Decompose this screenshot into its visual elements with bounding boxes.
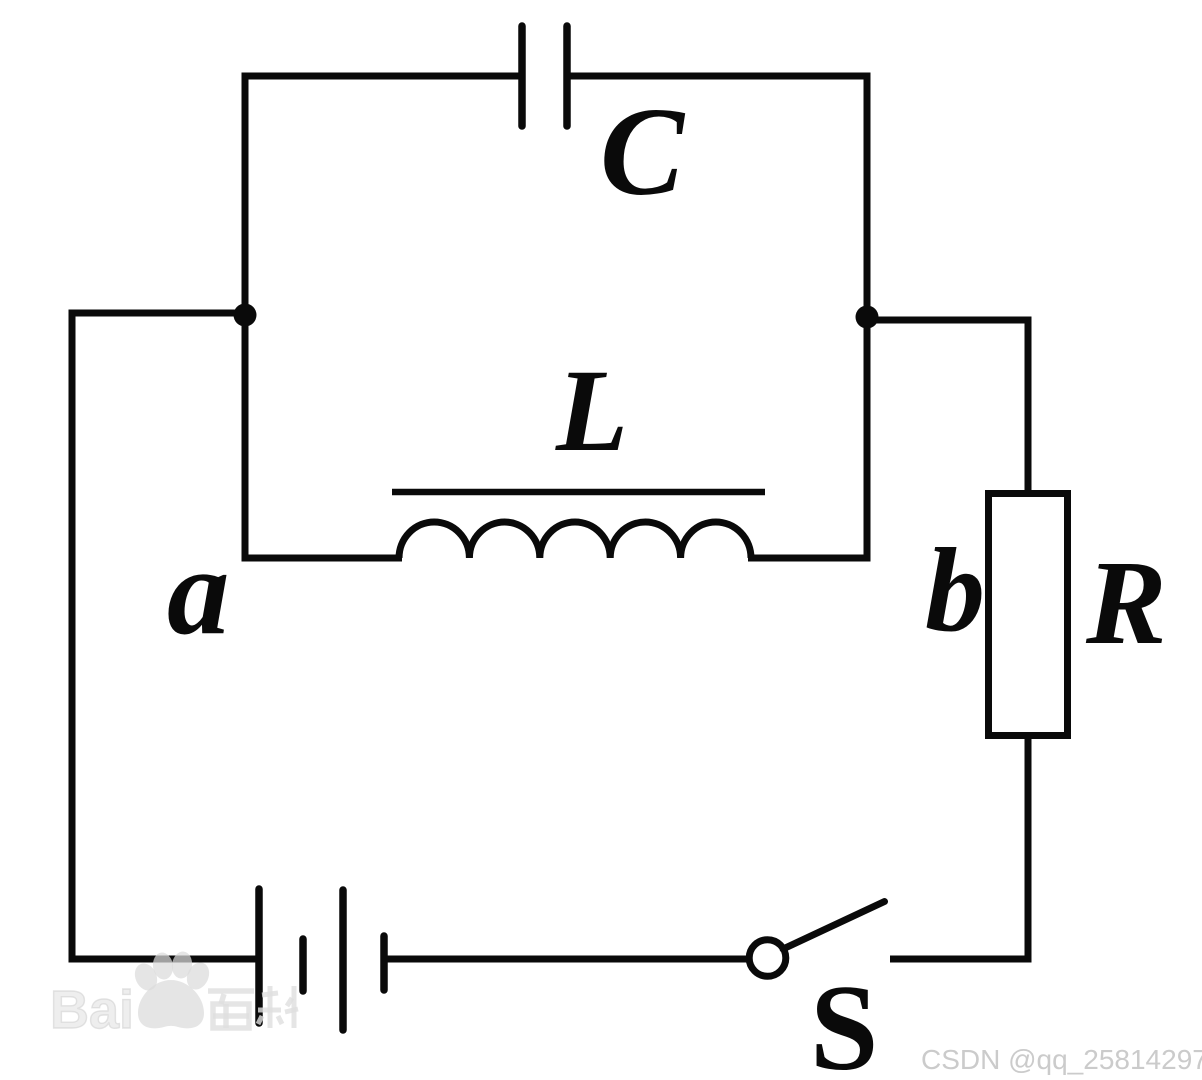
wire right loop vertical bbox=[864, 73, 871, 561]
svg-text:a: a bbox=[167, 523, 230, 661]
battery cell 1 short plate bbox=[299, 939, 307, 991]
svg-text:R: R bbox=[1085, 536, 1167, 670]
battery cell 1 long plate bbox=[255, 889, 263, 1023]
node a junction dot bbox=[234, 304, 257, 327]
wire top-left horizontal (node a riser to capacitor left plate) bbox=[242, 73, 524, 80]
svg-text:C: C bbox=[600, 83, 686, 222]
watermark Baidu Baike paw pad bbox=[138, 980, 204, 1028]
watermark Baidu Baike glyph 科 (drawn strokes) bbox=[258, 986, 298, 1028]
wire coil to right riser bbox=[748, 555, 871, 562]
watermark Baidu Baike paw toe mid-left bbox=[151, 951, 175, 981]
wire node b to resistor top bbox=[864, 320, 1029, 495]
resistor R body bbox=[989, 494, 1068, 736]
capacitor C right plate bbox=[563, 26, 571, 126]
wire top-right horizontal (capacitor right plate to right riser) bbox=[567, 73, 871, 80]
battery cell 2 short plate bbox=[380, 936, 388, 990]
watermark Baidu Baike paw toe mid-right bbox=[170, 950, 194, 980]
switch S pivot circle bbox=[749, 940, 786, 977]
wire coil baseline left (a corner to coil) bbox=[242, 555, 403, 562]
node b junction dot bbox=[856, 306, 879, 329]
svg-text:CSDN @qq_25814297-npl: CSDN @qq_25814297-npl bbox=[921, 1044, 1202, 1075]
svg-text:Bai: Bai bbox=[50, 980, 134, 1040]
wire switch to resistor bottom bbox=[890, 735, 1028, 959]
capacitor C left plate bbox=[518, 26, 526, 126]
watermark Baidu Baike paw toe left bbox=[131, 960, 162, 994]
inductor L winding humps bbox=[399, 522, 751, 558]
switch S lever arm (open) bbox=[783, 902, 885, 950]
watermark Baidu Baike glyph 百 (drawn strokes) bbox=[208, 991, 254, 1028]
wire left loop vertical bbox=[242, 73, 249, 562]
svg-text:L: L bbox=[555, 345, 628, 476]
svg-text:b: b bbox=[925, 523, 985, 656]
wire battery to switch bbox=[384, 956, 748, 963]
wire outer left branch (node a to battery positive plate) bbox=[72, 313, 259, 959]
inductor L core bar (underline) bbox=[392, 489, 765, 496]
battery cell 2 long plate bbox=[339, 890, 347, 1030]
watermark Baidu Baike paw toe right bbox=[183, 959, 214, 993]
svg-text:S: S bbox=[810, 959, 878, 1080]
